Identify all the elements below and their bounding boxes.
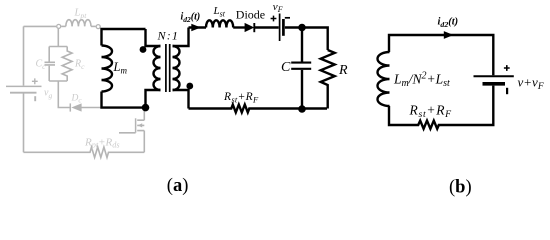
- svg-text:Rst+RF: Rst+RF: [409, 103, 453, 121]
- svg-text:id2(t): id2(t): [438, 17, 459, 29]
- svg-text:v+vF: v+vF: [518, 75, 544, 93]
- svg-text:Rpt+Rds: Rpt+Rds: [84, 136, 120, 149]
- svg-text:Lst: Lst: [213, 5, 226, 18]
- svg-text:Lm/N2+Lst: Lm/N2+Lst: [393, 71, 450, 90]
- svg-text:Cc: Cc: [36, 59, 47, 71]
- svg-text:id2(t): id2(t): [181, 12, 201, 24]
- svg-text:N:1: N:1: [157, 29, 180, 43]
- svg-text:Lpt: Lpt: [74, 8, 88, 20]
- svg-text:Lm: Lm: [113, 60, 128, 76]
- svg-text:C: C: [281, 60, 291, 75]
- svg-text:Dc: Dc: [71, 93, 83, 104]
- svg-text:Rc: Rc: [74, 59, 85, 71]
- svg-text:Diode: Diode: [236, 8, 265, 22]
- svg-text:vF: vF: [273, 1, 283, 14]
- svg-text:(b): (b): [449, 178, 472, 198]
- svg-text:vg: vg: [44, 88, 52, 100]
- svg-text:(a): (a): [167, 176, 189, 196]
- svg-text:Rst+RF: Rst+RF: [223, 91, 259, 104]
- svg-text:R: R: [338, 63, 348, 78]
